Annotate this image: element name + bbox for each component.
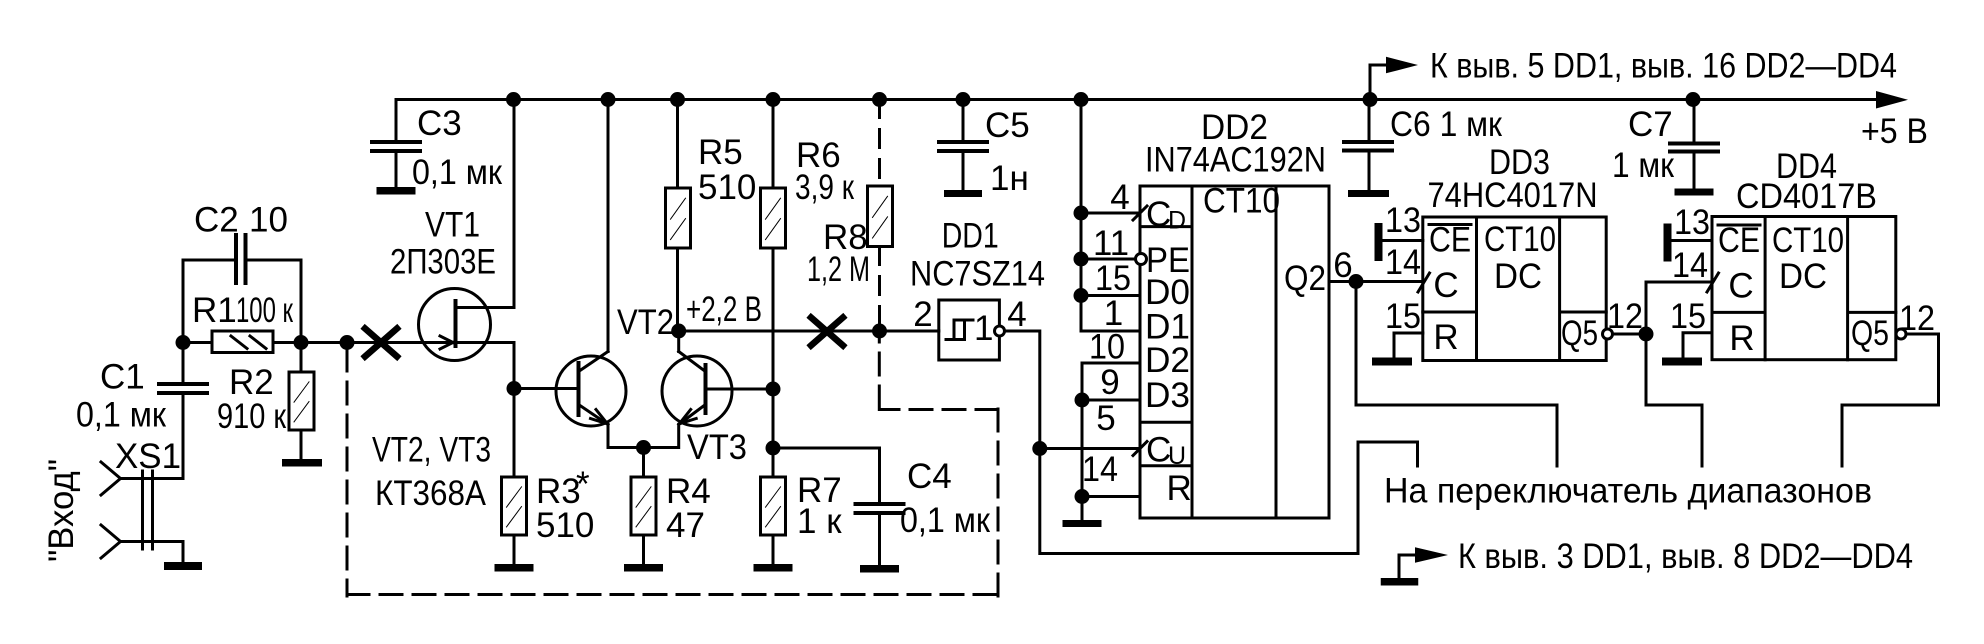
node rail-VT1 drain	[506, 92, 521, 107]
node rail-VT2 collector	[601, 92, 616, 107]
wire DD2 PE pin	[1081, 258, 1136, 261]
svg-text:CT10: CT10	[1484, 220, 1556, 259]
wire DD4 CE pin 13	[1672, 239, 1713, 242]
resistor R5	[676, 100, 679, 189]
VT2 emitter with arrow	[579, 405, 644, 448]
DD4 CE grounded bar	[1664, 224, 1672, 262]
svg-text:10: 10	[1089, 328, 1125, 367]
svg-text:C: C	[1728, 267, 1753, 306]
svg-text:4: 4	[1007, 295, 1026, 334]
node VT1 source - VT2 base - R3	[507, 381, 522, 396]
svg-text:Q5: Q5	[1561, 314, 1598, 353]
wire CU feed	[1040, 447, 1140, 450]
wire VT2 base	[514, 387, 579, 390]
node rail-C5	[956, 92, 971, 107]
power arrow +5 V	[1876, 91, 1908, 109]
wire DD4 Q5 pin 12 to band switch	[1842, 334, 1939, 466]
svg-text:+2,2 В: +2,2 В	[686, 290, 762, 329]
wire +5V power rail	[396, 98, 1876, 101]
arrow to K vyv.3 DD1	[1399, 554, 1415, 557]
svg-text:4: 4	[1110, 178, 1129, 217]
wire DD3 Q5 pin 12	[1613, 333, 1647, 336]
wire DD4 R pin 15	[1683, 333, 1712, 358]
wire riser to pin-5 tap arrow	[1370, 65, 1386, 100]
svg-text:С6 1 мк: С6 1 мк	[1390, 105, 1503, 144]
svg-text:VT3: VT3	[687, 428, 747, 467]
resistor R4	[642, 448, 645, 478]
ground DD4 R	[1662, 358, 1702, 366]
node rail-R5	[670, 92, 685, 107]
node R7 C4	[766, 441, 781, 456]
wire DD2 CD pin	[1081, 212, 1140, 215]
node emitters VT2 VT3 - R4	[636, 440, 651, 455]
svg-text:1н: 1н	[990, 159, 1029, 198]
node rail-R6	[766, 92, 781, 107]
wire VT3 base	[706, 388, 774, 391]
svg-text:R: R	[1729, 319, 1754, 358]
svg-text:Q5: Q5	[1851, 314, 1889, 353]
transistor VT2 body	[556, 356, 626, 426]
svg-text:DD1: DD1	[942, 217, 999, 256]
X break mark 2	[811, 318, 843, 346]
svg-text:NC7SZ14: NC7SZ14	[910, 255, 1045, 294]
svg-text:14: 14	[1672, 246, 1708, 285]
capacitor C6	[1368, 100, 1371, 141]
node PE	[1074, 252, 1089, 267]
ground DD2 inputs	[1063, 520, 1102, 527]
svg-text:CT10: CT10	[1772, 221, 1844, 260]
svg-text:0,1 мк: 0,1 мк	[76, 396, 167, 435]
svg-text:510: 510	[698, 168, 756, 207]
svg-text:11: 11	[1093, 224, 1129, 263]
wire Q2 to band switch	[1356, 282, 1557, 467]
svg-text:С1: С1	[100, 358, 145, 397]
wire XS1 pin2 to ground	[121, 542, 184, 563]
X break mark 1	[365, 329, 397, 357]
IC DD3 box	[1423, 217, 1606, 361]
svg-text:CD4017B: CD4017B	[1736, 177, 1877, 216]
node DD1 out - CU	[1032, 441, 1047, 456]
svg-text:VT2: VT2	[617, 303, 674, 342]
ground C6	[1348, 190, 1389, 197]
VT3 collector	[679, 331, 706, 372]
node screen box corner	[340, 335, 355, 350]
wire Q5 DD3 to DD4 C	[1646, 282, 1712, 334]
svg-text:IN74AC192N: IN74AC192N	[1145, 141, 1326, 180]
svg-text:D: D	[1168, 207, 1186, 235]
resistor R2	[300, 343, 303, 373]
VT1 gate arrow	[440, 336, 453, 349]
wire DD2 R pin	[1082, 495, 1140, 498]
arrow to K vyv.5 DD1	[1386, 57, 1418, 74]
svg-text:R: R	[1167, 469, 1192, 508]
wire DD2 +5V rail drop	[1081, 100, 1140, 332]
svg-text:14: 14	[1082, 450, 1118, 489]
ground C4	[860, 565, 899, 573]
resistor R3	[513, 389, 516, 478]
ground R7	[754, 564, 793, 572]
VT3 base bar	[704, 365, 708, 413]
ground C7	[1675, 189, 1714, 196]
IC DD2 box	[1140, 186, 1329, 518]
wire Q5 DD3 to band switch	[1646, 334, 1702, 466]
IC DD1 box	[939, 300, 1000, 360]
VT1 source wire	[456, 343, 515, 389]
svg-text:0,1 мк: 0,1 мк	[412, 153, 503, 192]
svg-text:*: *	[576, 465, 590, 504]
wire DD1 output	[1005, 331, 1040, 449]
screen dashed boundary	[347, 338, 998, 596]
capacitor C3	[395, 100, 398, 141]
resistor R1	[212, 331, 273, 353]
node R1-C1-C2	[176, 335, 191, 350]
connector XS1 body lines	[143, 471, 153, 549]
wire DD3 CE pin 13	[1383, 239, 1423, 242]
DD4 dynamic input mark	[1707, 273, 1719, 292]
svg-text:1 к: 1 к	[797, 502, 842, 541]
svg-text:С3: С3	[417, 104, 462, 143]
ground R3	[495, 564, 534, 572]
svg-text:100 к: 100 к	[236, 291, 293, 330]
wire DD2 D0 pin	[1081, 294, 1140, 297]
svg-text:13: 13	[1385, 201, 1421, 240]
svg-text:R: R	[1433, 318, 1458, 357]
svg-text:D0: D0	[1145, 273, 1190, 312]
connector XS1 contact 2	[101, 525, 121, 558]
svg-text:К выв. 5 DD1, выв. 16 DD2—DD4: К выв. 5 DD1, выв. 16 DD2—DD4	[1430, 47, 1897, 86]
wire DD2 Q2 output pin 6	[1329, 280, 1423, 283]
svg-text:CE: CE	[1718, 221, 1760, 260]
VT3 emitter with arrow	[644, 405, 706, 448]
svg-text:CT10: CT10	[1203, 182, 1280, 221]
svg-text:DC: DC	[1494, 257, 1542, 296]
DD3 Q5 inversion bubble	[1603, 329, 1613, 339]
svg-text:К выв. 3 DD1, выв. 8 DD2—DD4: К выв. 3 DD1, выв. 8 DD2—DD4	[1458, 537, 1913, 576]
svg-text:С5: С5	[985, 106, 1030, 145]
svg-text:DC: DC	[1779, 257, 1827, 296]
ground C5	[944, 190, 982, 197]
svg-text:+5 В: +5 В	[1861, 112, 1928, 151]
node CD	[1074, 206, 1089, 221]
wire DD2 ground rail D2 D3 R	[1082, 363, 1140, 520]
wire input line	[301, 341, 453, 344]
svg-text:VT1: VT1	[425, 206, 480, 245]
svg-text:910 к: 910 к	[217, 397, 287, 436]
wire +2.2V line to DD1	[679, 330, 939, 333]
svg-text:1 мк: 1 мк	[1612, 146, 1675, 185]
svg-text:9: 9	[1100, 363, 1119, 402]
capacitor C5	[962, 100, 965, 141]
svg-text:U: U	[1168, 442, 1186, 470]
DD2 dynamic input marks	[1133, 206, 1147, 456]
wire DD1 out to band switch	[1040, 442, 1418, 554]
svg-text:КТ368А: КТ368А	[375, 474, 487, 513]
node rail-C7	[1686, 92, 1701, 107]
svg-text:XS1: XS1	[115, 437, 181, 476]
svg-text:2: 2	[913, 295, 932, 334]
wire R1 left	[183, 341, 212, 344]
node VT3 base divider	[766, 382, 781, 397]
connector XS1 contact 1	[101, 462, 121, 495]
svg-text:R5: R5	[698, 133, 743, 172]
ground R2	[282, 459, 322, 467]
VT2 collector	[579, 100, 609, 372]
ground symbol bottom tap	[1398, 555, 1401, 578]
svg-text:"Вход": "Вход"	[42, 459, 81, 562]
IC DD4 box	[1712, 217, 1896, 360]
svg-text:15: 15	[1385, 297, 1421, 336]
svg-text:CE: CE	[1429, 221, 1471, 260]
transistor VT1 body	[419, 289, 491, 361]
node Q2 to divider chain	[1349, 274, 1364, 289]
svg-text:5: 5	[1096, 399, 1115, 438]
svg-text:D3: D3	[1145, 376, 1190, 415]
svg-text:С2: С2	[194, 201, 239, 240]
node D0	[1074, 288, 1089, 303]
capacitor C4	[773, 448, 880, 502]
capacitor C7	[1693, 100, 1696, 142]
node rail-C6	[1363, 92, 1378, 107]
VT1 channel bar	[454, 301, 458, 346]
node rail-DD2 inputs	[1074, 92, 1089, 107]
DD2 PE inversion bubble	[1136, 254, 1147, 265]
DD4 Q5 inversion bubble	[1896, 329, 1906, 339]
node Q5 DD3	[1639, 327, 1654, 342]
svg-text:47: 47	[666, 506, 705, 545]
ground C3	[377, 187, 416, 195]
wire DD2 D3 pin	[1082, 399, 1140, 402]
svg-text:D2: D2	[1145, 341, 1190, 380]
ground R4	[624, 564, 663, 572]
node R8-DD1 input	[872, 324, 887, 339]
svg-text:С7: С7	[1628, 105, 1673, 144]
svg-text:13: 13	[1674, 203, 1710, 242]
ground DD3 R	[1372, 358, 1412, 366]
VT1 drain wire	[456, 100, 515, 308]
svg-text:На переключатель диапазонов: На переключатель диапазонов	[1384, 472, 1872, 511]
wire DD3 R pin 15	[1394, 333, 1423, 358]
node VT3 collector R5	[671, 324, 686, 339]
DD1 output inversion bubble	[995, 326, 1005, 336]
svg-text:10: 10	[249, 201, 288, 240]
node rail-R8	[872, 92, 887, 107]
svg-text:VT2, VT3: VT2, VT3	[372, 431, 491, 470]
wire XS1 pin1 to C1	[121, 477, 184, 480]
wire R1 right	[273, 341, 301, 344]
svg-text:12: 12	[1607, 297, 1643, 336]
DD1 hysteresis symbol	[946, 320, 973, 340]
capacitor C1	[182, 343, 185, 383]
svg-text:C: C	[1433, 266, 1458, 305]
svg-text:74HC4017N: 74HC4017N	[1428, 176, 1598, 215]
svg-text:15: 15	[1095, 259, 1131, 298]
svg-text:Q2: Q2	[1284, 259, 1326, 298]
transistor VT3 body	[662, 356, 732, 426]
svg-text:2П303Е: 2П303Е	[390, 243, 496, 282]
svg-text:15: 15	[1670, 297, 1706, 336]
capacitor C2	[183, 260, 234, 343]
node R1-R2-C2	[294, 335, 309, 350]
svg-text:С4: С4	[907, 457, 952, 496]
svg-text:0,1 мк: 0,1 мк	[900, 501, 991, 540]
node R DD2	[1075, 489, 1090, 504]
DD3 dynamic input mark	[1418, 273, 1430, 292]
resistor R8 (dashed connection)	[878, 100, 881, 187]
node D3	[1075, 393, 1090, 408]
svg-text:1,2 М: 1,2 М	[807, 250, 870, 289]
svg-text:1: 1	[974, 309, 993, 348]
resistor R6	[772, 100, 775, 189]
svg-text:14: 14	[1385, 243, 1421, 282]
svg-text:12: 12	[1899, 299, 1935, 338]
svg-text:510: 510	[536, 506, 594, 545]
DD3 CE grounded bar	[1375, 223, 1383, 261]
ground XS1	[164, 562, 202, 570]
resistor R7	[761, 477, 786, 535]
svg-text:R1: R1	[192, 291, 237, 330]
VT2 base bar	[577, 363, 581, 415]
svg-text:3,9 к: 3,9 к	[795, 168, 855, 207]
